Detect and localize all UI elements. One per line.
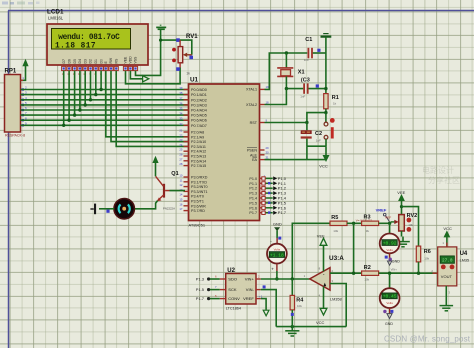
VM3 ground terminal xyxy=(383,308,393,326)
svg-text:10k: 10k xyxy=(364,278,369,282)
svg-text:25: 25 xyxy=(179,148,183,152)
svg-text:D5: D5 xyxy=(73,59,77,63)
svg-text:1k: 1k xyxy=(333,101,337,105)
sounder left terminal xyxy=(90,204,114,215)
decorative top-left smudges xyxy=(2,2,40,5)
wire button top leg xyxy=(325,113,327,123)
svg-text:P0.3/AD3: P0.3/AD3 xyxy=(191,103,207,107)
svg-text:29: 29 xyxy=(266,146,270,150)
bus wire RP1 to U1 P0.2 xyxy=(21,99,189,101)
svg-text:+1.18: +1.18 xyxy=(270,252,284,258)
svg-text:22: 22 xyxy=(179,133,183,137)
wire: RV1 bottom to LCD VEE pin xyxy=(126,63,181,84)
LCD display LCD1 (LM016L) xyxy=(47,8,148,65)
potentiometer RV1 xyxy=(172,34,198,76)
svg-text:C2: C2 xyxy=(315,131,322,137)
svg-text:3: 3 xyxy=(332,279,334,283)
junction R5/R3 tap xyxy=(352,222,355,225)
svg-text:1k: 1k xyxy=(186,71,190,75)
svg-text:P3.1/TXD: P3.1/TXD xyxy=(191,180,207,184)
VCC power arrow (down) at reset net xyxy=(319,155,329,169)
svg-text:RV1: RV1 xyxy=(186,34,198,40)
U1 left pin numbers xyxy=(179,86,183,211)
svg-text:CSDN @Mr. song_post: CSDN @Mr. song_post xyxy=(384,335,471,344)
svg-text:38: 38 xyxy=(179,91,183,95)
wire U2 VIN- down to ground rail xyxy=(256,285,276,326)
VCC arrow below op-amp xyxy=(316,287,327,326)
svg-text:30: 30 xyxy=(266,151,270,155)
capacitor C2 electrolytic xyxy=(301,123,322,147)
svg-text:PN2222A: PN2222A xyxy=(163,206,175,210)
crystal X1 xyxy=(277,53,304,89)
svg-text:电路设计: 电路设计 xyxy=(422,165,454,175)
svg-text:GND: GND xyxy=(392,259,400,263)
junction R1 bottom / button top xyxy=(324,111,327,114)
svg-text:D2: D2 xyxy=(89,59,93,63)
bus wire RP1 to U1 P0.5 xyxy=(21,114,189,116)
svg-text:1: 1 xyxy=(304,274,306,278)
wire U2 VREF to ground arrow xyxy=(256,294,266,309)
sounder / speaker xyxy=(114,199,134,219)
wire: bar node to RV1 top and wiper xyxy=(161,40,192,55)
svg-text:P0.4/AD4: P0.4/AD4 xyxy=(191,109,207,113)
blue marker on sounder wire xyxy=(106,210,109,213)
svg-text:(C3: (C3 xyxy=(301,78,310,84)
voltmeter VM2 stem from VREF node xyxy=(389,223,391,233)
svg-text:12: 12 xyxy=(179,183,183,187)
ground rail wire xyxy=(276,326,346,328)
junction crystal bottom / XTAL2 xyxy=(285,87,288,90)
svg-text:P3.7/RD: P3.7/RD xyxy=(191,209,205,213)
svg-text:1nF: 1nF xyxy=(300,94,305,98)
svg-text:39: 39 xyxy=(179,86,183,90)
wire LCD RS to U1 P2.3 xyxy=(116,71,188,147)
VEE power arrow above op-amp xyxy=(317,234,327,272)
push button (reset) xyxy=(324,118,335,139)
wire op-amp IN+ down to ground rail xyxy=(330,284,346,327)
svg-text:R1: R1 xyxy=(332,95,339,101)
resistor R5 xyxy=(330,215,347,233)
svg-text:PSEN: PSEN xyxy=(247,149,257,153)
terminal flags P1.0-P1.7 on right of U1 xyxy=(262,176,287,215)
blue pin marker RV1 top xyxy=(176,38,180,42)
junction C1 wire to crystal xyxy=(285,51,288,54)
svg-text:24: 24 xyxy=(179,143,183,147)
voltmeter VM3 (op-amp input node) xyxy=(380,288,400,308)
ADC U2 LTC1864 xyxy=(226,268,256,311)
svg-text:U3:A: U3:A xyxy=(329,255,344,262)
svg-text:33: 33 xyxy=(179,117,183,121)
svg-text:10: 10 xyxy=(179,174,183,178)
svg-text:VIN-: VIN- xyxy=(246,287,255,292)
wire Q1 base to U1 P3.3 xyxy=(170,190,186,192)
wire LCD D3 to P0.3 bus xyxy=(84,71,86,105)
junction IN- tap xyxy=(352,272,355,275)
svg-text:P1.4: P1.4 xyxy=(249,197,257,201)
svg-text:SDO: SDO xyxy=(228,277,237,282)
resistor R6 xyxy=(416,246,431,273)
bus wire RP1 to U1 P0.4 xyxy=(21,109,189,111)
junction VREF node xyxy=(388,222,391,225)
svg-text:P1.7: P1.7 xyxy=(278,210,287,215)
svg-text:P2.3/A11: P2.3/A11 xyxy=(191,145,206,149)
svg-text:R2: R2 xyxy=(364,265,371,271)
svg-text:P1.1: P1.1 xyxy=(249,182,257,186)
svg-text:P2.7/A15: P2.7/A15 xyxy=(191,164,206,168)
svg-text:Volts: Volts xyxy=(386,248,393,252)
GND terminal above voltmeter (P1 area) xyxy=(270,222,282,244)
microcontroller U1 AT89C51 body xyxy=(189,76,260,227)
svg-text:P1.7: P1.7 xyxy=(196,296,205,301)
svg-text:RST: RST xyxy=(250,121,258,125)
RP1 pin markers xyxy=(21,88,25,126)
svg-text:4: 4 xyxy=(319,293,321,297)
wire R2 to LM35 output line xyxy=(379,272,438,274)
svg-text:P3.0/RXD: P3.0/RXD xyxy=(191,176,208,180)
svg-text:+: + xyxy=(271,267,274,272)
svg-text:2: 2 xyxy=(431,269,433,273)
svg-text:R5: R5 xyxy=(331,215,338,221)
svg-text:17: 17 xyxy=(179,207,183,211)
U2 left pin stubs xyxy=(220,279,226,299)
svg-text:XTAL2: XTAL2 xyxy=(246,103,257,107)
svg-text:Volts: Volts xyxy=(386,301,393,305)
svg-text:LTC1864: LTC1864 xyxy=(226,306,241,310)
svg-text:P2.2/A10: P2.2/A10 xyxy=(191,140,206,144)
svg-text:VDD: VDD xyxy=(129,56,133,64)
svg-text:D4: D4 xyxy=(78,59,82,63)
resistor R3 xyxy=(356,215,379,233)
svg-text:VCC: VCC xyxy=(443,226,452,231)
power terminal (bar) above RV1 xyxy=(156,25,166,29)
svg-text:16: 16 xyxy=(179,202,183,206)
svg-text:P1.6: P1.6 xyxy=(249,206,257,210)
svg-text:P3.5/T1: P3.5/T1 xyxy=(191,200,204,204)
svg-text:28: 28 xyxy=(179,162,183,166)
svg-text:10k: 10k xyxy=(408,223,413,227)
svg-text:VOUT: VOUT xyxy=(441,274,453,279)
svg-text:GND: GND xyxy=(273,222,282,227)
svg-text:P2.1/A9: P2.1/A9 xyxy=(191,135,204,139)
wire U2 VIN+ to op-amp output xyxy=(256,274,310,279)
terminal arrow (right) at LCD VDD xyxy=(143,76,149,82)
VCC power arrow at RP1 pin1 xyxy=(21,59,29,81)
svg-text:RP1: RP1 xyxy=(5,69,17,75)
VM2 ground terminal xyxy=(385,253,400,265)
blue marker on C3 wire xyxy=(316,84,319,87)
svg-text:VREF: VREF xyxy=(243,296,254,301)
svg-text:+0.92: +0.92 xyxy=(383,240,397,246)
svg-text:21: 21 xyxy=(179,129,183,133)
svg-text:LM358: LM358 xyxy=(330,297,342,301)
wire button bottom / C2 bottom to VCC node xyxy=(307,139,326,160)
wire Q1 emitter to sounder xyxy=(134,201,157,209)
blue marker on C1 wire xyxy=(317,49,320,52)
wire LCD D1 to P0.1 bus xyxy=(95,71,97,95)
svg-text:VREF: VREF xyxy=(376,208,387,213)
svg-text:VEE: VEE xyxy=(124,56,128,64)
ground arrow at U2 VREF xyxy=(263,310,269,316)
VCC power arrow at Q1 collector xyxy=(152,156,158,177)
junction output node xyxy=(291,277,294,280)
terminal P1.3 to U2 SDO xyxy=(196,275,220,282)
wire: LCD VDD pin to arrow terminal xyxy=(130,71,142,79)
svg-text:P2.5/A13: P2.5/A13 xyxy=(191,155,206,159)
wire RV2 wiper from VREF node xyxy=(390,222,392,223)
svg-text:P0.6/AD6: P0.6/AD6 xyxy=(191,119,207,123)
svg-text:35: 35 xyxy=(179,107,183,111)
svg-text:P1.0: P1.0 xyxy=(249,177,257,181)
capacitor C3 xyxy=(286,78,326,99)
voltmeter VM3 stem xyxy=(389,273,391,288)
svg-text:2: 2 xyxy=(258,274,260,278)
svg-text:LCD1: LCD1 xyxy=(47,8,64,15)
svg-text:SCK: SCK xyxy=(228,287,237,292)
earth ground below RV2 xyxy=(396,231,410,247)
blue pin marker RV1 wiper corner xyxy=(189,56,193,60)
svg-text:RW: RW xyxy=(109,57,113,63)
svg-text:ALE: ALE xyxy=(250,153,258,157)
faint watermark top right xyxy=(422,165,460,185)
svg-text:-: - xyxy=(323,272,325,278)
svg-text:1.18 817: 1.18 817 xyxy=(55,42,96,50)
RP1 pin numbers 2-9 xyxy=(25,86,27,126)
wire ground node vertical (C1/C3 common) xyxy=(325,37,327,94)
bus wire RP1 to U1 P0.7 xyxy=(21,124,189,126)
svg-text:27: 27 xyxy=(179,157,183,161)
wire R3 to VREF node xyxy=(379,222,390,224)
voltmeter VM1 (ADC input) xyxy=(267,244,287,264)
op-amp U3:A LM358 xyxy=(310,255,345,301)
svg-text:36: 36 xyxy=(179,101,183,105)
svg-text:D6: D6 xyxy=(67,59,71,63)
wire R1 bottom to RST node xyxy=(307,113,326,123)
voltage probe VREF xyxy=(376,208,392,222)
svg-text:1uF: 1uF xyxy=(316,138,321,142)
svg-text:U4: U4 xyxy=(460,251,468,257)
wire EA pin to VCC node xyxy=(265,159,327,161)
svg-text:3: 3 xyxy=(448,291,450,295)
transistor Q1 xyxy=(156,171,179,210)
wire LCD D5 to P0.5 bus xyxy=(74,71,76,116)
svg-text:D0: D0 xyxy=(99,59,103,63)
voltmeter VM2 (VREF) xyxy=(380,234,400,254)
bus wire RP1 to U1 P0.6 xyxy=(21,119,189,121)
wire VEE node to R6 top xyxy=(402,207,419,247)
svg-text:VIN+: VIN+ xyxy=(391,268,398,272)
svg-text:EA: EA xyxy=(252,158,257,162)
U1 left pin stubs P0 xyxy=(184,90,189,126)
U1 left pin names xyxy=(191,88,208,213)
svg-text:wendu: 081.7oC: wendu: 081.7oC xyxy=(58,34,120,42)
svg-text:8: 8 xyxy=(319,267,321,271)
wire LCD RW to U1 P2.2 xyxy=(111,71,189,142)
svg-text:P2.0/A8: P2.0/A8 xyxy=(191,131,204,135)
U1 left pin stubs P2 xyxy=(184,132,189,166)
svg-text:C1: C1 xyxy=(305,37,312,43)
svg-text:P0.7/AD7: P0.7/AD7 xyxy=(191,124,207,128)
svg-text:P1.3: P1.3 xyxy=(196,277,205,282)
svg-text:P1.5: P1.5 xyxy=(249,201,257,205)
svg-text:GND: GND xyxy=(385,322,393,326)
svg-text:P3.2/INT0: P3.2/INT0 xyxy=(191,185,208,189)
svg-text:14: 14 xyxy=(179,193,183,197)
svg-text:REF: REF xyxy=(385,216,391,220)
svg-text:10k: 10k xyxy=(424,256,429,260)
VM1 bottom terminal to VIN+ wire xyxy=(271,264,277,279)
svg-text:CONV: CONV xyxy=(228,296,240,301)
resistor pack RP1 (RESPACK-8) xyxy=(5,69,26,138)
bus wire RP1 to U1 P0.1 xyxy=(21,94,189,96)
svg-text:VIN+: VIN+ xyxy=(245,277,255,282)
junction VEE node at RV2 top xyxy=(400,205,403,208)
svg-text:VSS: VSS xyxy=(134,56,138,64)
svg-text:1: 1 xyxy=(442,241,444,245)
svg-text:P1.7: P1.7 xyxy=(249,211,257,215)
VEE power arrow top right xyxy=(397,190,405,215)
ground bar above crystal node xyxy=(321,34,332,37)
U1 right pin names xyxy=(246,88,258,216)
svg-text:X1: X1 xyxy=(298,69,305,75)
svg-text:D1: D1 xyxy=(94,59,98,63)
wire LCD D7 to P0.7 bus xyxy=(63,71,65,126)
svg-text:R6: R6 xyxy=(424,249,431,255)
svg-text:P0.2/AD2: P0.2/AD2 xyxy=(191,98,207,102)
terminal P1.5 to U2 SCK xyxy=(196,285,220,292)
svg-text:7: 7 xyxy=(215,285,217,289)
svg-text:P1.5: P1.5 xyxy=(196,287,205,292)
U1 overlines on PSEN and EA xyxy=(247,148,257,158)
svg-text:LM35: LM35 xyxy=(460,258,470,262)
svg-text:6: 6 xyxy=(215,275,217,279)
svg-text:P3.4/T0: P3.4/T0 xyxy=(191,195,204,199)
svg-text:15: 15 xyxy=(179,198,183,202)
junction dots on data bus xyxy=(62,88,103,127)
svg-text:P0.1/AD1: P0.1/AD1 xyxy=(191,93,207,97)
svg-text:LM016L: LM016L xyxy=(48,16,64,21)
VCC power arrow above U4 xyxy=(442,226,452,247)
svg-text:P3.3/INT1: P3.3/INT1 xyxy=(191,190,208,194)
svg-text:32: 32 xyxy=(179,122,183,126)
wire RST pin to node xyxy=(265,122,307,124)
svg-text:1: 1 xyxy=(22,76,24,80)
svg-text:27.0: 27.0 xyxy=(442,259,453,264)
svg-text:XTAL1: XTAL1 xyxy=(246,88,257,92)
svg-text:10k: 10k xyxy=(333,229,338,233)
svg-text:P3.6/WR: P3.6/WR xyxy=(191,204,206,208)
wire XTAL1 up and to C1 xyxy=(265,53,308,89)
bus wire RP1 to U1 P0.0 xyxy=(21,89,189,91)
svg-text:23: 23 xyxy=(179,138,183,142)
svg-text:D3: D3 xyxy=(83,59,87,63)
junction VM1 on VIN+ wire xyxy=(275,277,278,280)
svg-text:34: 34 xyxy=(179,112,183,116)
wire LCD D2 to P0.2 bus xyxy=(90,71,92,100)
bus wire RP1 to U1 P0.3 xyxy=(21,104,189,106)
svg-text:P1.3: P1.3 xyxy=(249,192,257,196)
svg-text:P2.6/A14: P2.6/A14 xyxy=(191,159,206,163)
svg-text:VCC: VCC xyxy=(316,320,325,325)
svg-text:P0.0/AD0: P0.0/AD0 xyxy=(191,88,207,92)
svg-text:RESPACK-8: RESPACK-8 xyxy=(5,134,25,138)
svg-text:RS: RS xyxy=(114,58,118,63)
junction RST node xyxy=(305,121,308,124)
earth ground on rail xyxy=(285,327,299,336)
svg-text:Volts: Volts xyxy=(274,248,281,252)
svg-text:+ 1: + 1 xyxy=(259,294,263,298)
wire R5 to R3 xyxy=(347,222,362,224)
LCD pin labels D7..D0, E, RW, RS, VEE, VDD, VSS xyxy=(62,56,138,64)
wire output node up to R5 xyxy=(292,223,330,279)
temperature sensor U4 LM35 xyxy=(431,243,469,291)
svg-text:P2.4/A12: P2.4/A12 xyxy=(191,150,206,154)
svg-text:D7: D7 xyxy=(62,59,66,63)
U1 right pin numbers xyxy=(264,85,270,212)
wire: ground bar down to VSS loop xyxy=(136,30,161,76)
junction node at ground stem xyxy=(159,39,162,42)
resistor R1 xyxy=(324,94,339,113)
svg-text:3k: 3k xyxy=(366,229,370,233)
junction VM3 tap xyxy=(388,272,391,275)
svg-text:10k: 10k xyxy=(297,304,302,308)
svg-text:2: 2 xyxy=(332,269,334,273)
resistor R2 xyxy=(362,265,379,282)
junction R6 bottom xyxy=(417,272,420,275)
svg-text:26: 26 xyxy=(179,153,183,157)
svg-text:37: 37 xyxy=(179,96,183,100)
wire tap down to IN- xyxy=(353,223,355,273)
junction R4 bottom on ground rail xyxy=(291,325,294,328)
junction C3 node on ground vertical xyxy=(324,87,327,90)
svg-text:Q1: Q1 xyxy=(171,171,178,177)
svg-text:1nF: 1nF xyxy=(304,58,309,62)
LCD pin terminal boxes xyxy=(62,65,138,76)
svg-text:5: 5 xyxy=(215,294,217,298)
U1 right pin stubs P1.0-P1.7 xyxy=(260,178,263,212)
wire op-amp IN- to R2 xyxy=(330,272,362,274)
terminal P1.7 to U2 CONV xyxy=(196,294,220,301)
svg-text:P1.2: P1.2 xyxy=(249,187,257,191)
wire LCD D4 to P0.4 bus xyxy=(79,71,81,110)
op-amp pin numbers xyxy=(304,267,334,298)
potentiometer RV2 xyxy=(391,213,417,232)
svg-text:VCC: VCC xyxy=(319,164,328,169)
svg-text:11: 11 xyxy=(180,178,183,182)
svg-text:AT89C51: AT89C51 xyxy=(189,222,206,227)
svg-text:分享社区: 分享社区 xyxy=(428,175,460,185)
wire LCD D0 to P0.0 bus xyxy=(100,71,102,90)
blue pin marker RV1 bottom xyxy=(176,67,180,71)
wire LCD E to U1 P2.1 xyxy=(106,71,189,137)
capacitor C1 xyxy=(304,37,326,62)
svg-text:+0.45: +0.45 xyxy=(383,294,397,300)
svg-text:P0.5/AD5: P0.5/AD5 xyxy=(191,114,207,118)
resistor R4 xyxy=(290,279,304,327)
wire LCD D6 to P0.6 bus xyxy=(68,71,70,121)
svg-text:U1: U1 xyxy=(190,76,199,83)
svg-text:R4: R4 xyxy=(296,298,304,304)
svg-text:-: - xyxy=(270,238,272,243)
U4 bottom pin to earth ground xyxy=(440,286,454,311)
U1 left pin stubs P3 xyxy=(184,177,189,211)
U1 right pin stubs XTAL1 XTAL2 RST PSEN ALE EA xyxy=(260,89,265,159)
wire XTAL2 xyxy=(265,89,287,105)
svg-text:31: 31 xyxy=(266,155,270,159)
